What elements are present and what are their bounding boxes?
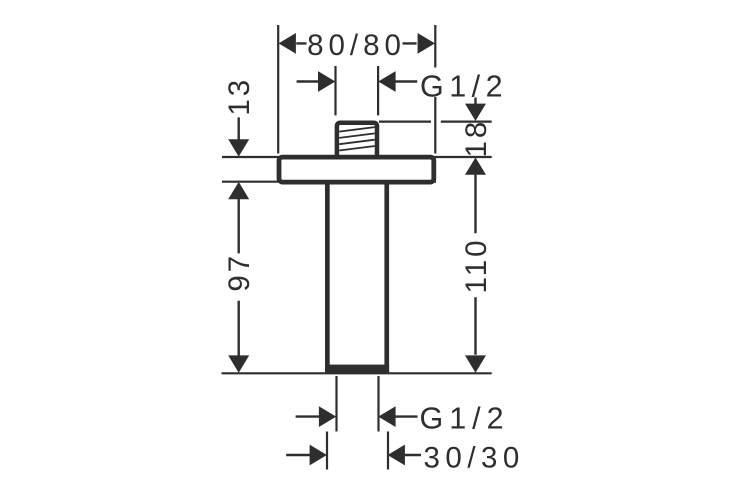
- reference line: nipple top level (right, broken at crossing): [379, 120, 492, 122]
- arrow G1/2 top left: [318, 71, 335, 92]
- extension line 80/80 left: [277, 25, 279, 154]
- svg-text:G1/2: G1/2: [420, 69, 508, 103]
- arrow G1/2 bottom right: [378, 406, 395, 427]
- arrow 30/30 left: [310, 445, 327, 466]
- arrow 13 (down): [228, 139, 249, 156]
- svg-text:97: 97: [223, 253, 256, 292]
- svg-text:13: 13: [223, 77, 256, 116]
- svg-text:80/80: 80/80: [307, 29, 406, 62]
- reference line: plate top level: [222, 156, 492, 158]
- dim stems 13 / 97: [237, 117, 239, 357]
- ceiling plate 80x80: [279, 157, 434, 182]
- dim stems 18 / 110: [474, 98, 476, 355]
- svg-text:110: 110: [460, 237, 493, 293]
- svg-text:30/30: 30/30: [424, 442, 525, 475]
- arrow G1/2 top right: [378, 71, 395, 92]
- reference line: plate bottom level (left): [222, 181, 436, 183]
- extension lines G1/2 top: [336, 66, 379, 115]
- dim stems G1/2 top: [297, 80, 418, 82]
- extension lines 30/30: [327, 432, 388, 470]
- dim stems 80/80: [296, 42, 416, 44]
- arrow 97 bottom (down): [228, 355, 249, 372]
- arrow 110 top (up): [465, 158, 486, 175]
- arrow 80/80 right: [418, 33, 435, 54]
- ceiling pipe (drop tube): [325, 184, 389, 373]
- reference line: pipe bottom level: [222, 372, 492, 374]
- extension line 80/80 right (broken at G text): [434, 25, 436, 154]
- arrow G1/2 bottom left: [319, 406, 336, 427]
- arrow 80/80 left: [279, 33, 296, 54]
- dim stems 30/30: [286, 454, 421, 456]
- arrow 30/30 right: [388, 445, 405, 466]
- thread hatch lines: [339, 127, 375, 150]
- svg-text:G1/2: G1/2: [420, 402, 510, 436]
- arrow 18 (down): [465, 104, 486, 121]
- svg-text:18: 18: [460, 119, 493, 158]
- arrow 97 top (up): [228, 182, 249, 199]
- threaded nipple G1/2 (top connector): [337, 123, 377, 159]
- extension lines G1/2 bottom: [337, 376, 379, 432]
- arrow 110 bottom (down): [465, 355, 486, 372]
- dim stems G1/2 bottom: [296, 415, 418, 417]
